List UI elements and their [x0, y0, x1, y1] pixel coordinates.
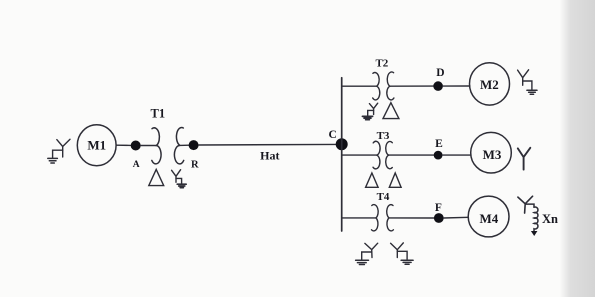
node A	[131, 141, 141, 171]
svg-text:Hat: Hat	[260, 148, 279, 162]
reactor Xn (neutral grounding reactor)	[525, 204, 558, 231]
wire bus to T3	[342, 154, 377, 156]
bus wire (vertical)	[341, 78, 343, 231]
ground (T4 primary wye)	[356, 260, 369, 264]
delta winding symbol (T1)	[149, 169, 164, 185]
node C	[328, 129, 347, 150]
svg-text:M2: M2	[480, 77, 499, 92]
grounded-wye winding symbol (T4 secondary)	[391, 243, 408, 259]
wire bus to T2	[342, 85, 377, 87]
wire T3 to node E	[389, 154, 434, 156]
motor M2	[470, 63, 510, 105]
svg-text:F: F	[435, 202, 442, 214]
svg-text:T2: T2	[375, 58, 388, 70]
transformer T2	[373, 58, 394, 100]
wire node F to M4	[444, 216, 469, 219]
grounded-wye winding symbol (T4 primary)	[362, 243, 378, 259]
transformer T1	[151, 107, 184, 164]
ground (M2 neutral)	[527, 90, 537, 94]
svg-text:M1: M1	[87, 137, 106, 152]
grounded-wye symbol (M2 neutral)	[518, 70, 532, 90]
wire node A to T1	[141, 145, 157, 147]
node E	[434, 138, 443, 159]
grounded-wye winding symbol (T2)	[368, 103, 378, 115]
wire T1 to node B	[180, 144, 189, 146]
wye symbol (M3 neutral)	[518, 148, 531, 170]
svg-text:R: R	[191, 159, 199, 170]
svg-text:D: D	[436, 67, 444, 79]
svg-text:C: C	[328, 129, 336, 141]
delta winding symbol (T2)	[383, 103, 399, 119]
wire node D to M2	[443, 85, 470, 87]
node B (label R)	[189, 140, 199, 170]
transformer T4	[372, 191, 394, 231]
delta winding symbol (T3 primary)	[366, 173, 379, 187]
motor M1	[77, 125, 116, 166]
wire T2 to node D	[390, 85, 434, 87]
ground (T4 secondary wye)	[401, 260, 413, 264]
node F	[434, 202, 444, 223]
wire T4 to node F	[389, 217, 434, 219]
motor M3	[471, 132, 512, 173]
ground (T2 wye)	[362, 116, 372, 119]
svg-text:A: A	[133, 160, 140, 170]
wire node E to M3	[443, 154, 471, 156]
wire Hat (node B to node C)	[199, 143, 336, 146]
svg-text:T4: T4	[377, 191, 390, 203]
motor M4	[468, 196, 509, 237]
wye symbol (M4 neutral)	[518, 196, 533, 213]
transformer T3	[373, 130, 392, 169]
svg-text:M4: M4	[480, 211, 499, 226]
ground (M1 neutral)	[48, 158, 58, 163]
wire M1 to node A	[117, 144, 131, 146]
grounded-wye winding symbol (T1)	[172, 170, 182, 184]
ground (T1 wye)	[177, 184, 186, 187]
svg-text:E: E	[435, 138, 443, 150]
grounded-wye symbol (M1 neutral)	[53, 139, 70, 158]
wire bus to T4	[342, 217, 376, 219]
delta winding symbol (T3 secondary)	[389, 173, 401, 187]
svg-text:T1: T1	[151, 107, 166, 121]
svg-text:Xn: Xn	[542, 212, 558, 226]
svg-text:M3: M3	[483, 147, 502, 162]
svg-text:T3: T3	[377, 130, 390, 142]
ground arrow (Xn)	[531, 231, 538, 236]
node D	[433, 67, 444, 91]
